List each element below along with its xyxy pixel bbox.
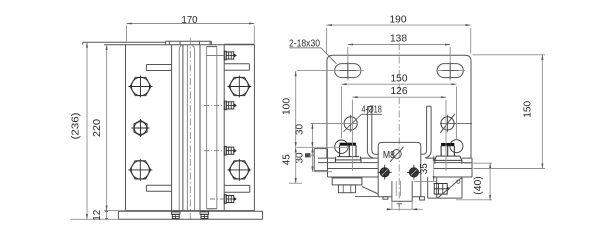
hex bolt B3 (left block bottom) xyxy=(128,159,152,181)
screw left xyxy=(378,165,392,180)
hex bolt B1 (left block top) xyxy=(129,76,153,98)
screw right xyxy=(407,165,421,180)
J hanger bar left xyxy=(367,107,378,159)
nut stud right xyxy=(435,140,463,164)
dim 170 xyxy=(127,15,255,44)
svg-text:100: 100 xyxy=(282,98,293,115)
rib right lower xyxy=(224,185,250,192)
label 4-phi18 xyxy=(344,105,383,132)
slot crosshairs xyxy=(297,47,465,81)
svg-text:170: 170 xyxy=(182,15,198,26)
body bottom edge xyxy=(126,210,255,212)
hex bolt B2 (left block middle, small) xyxy=(132,119,150,137)
M8 centre block xyxy=(378,142,424,201)
dim 126 xyxy=(352,86,446,171)
left clamp end piece xyxy=(305,149,328,177)
rib left upper xyxy=(146,65,171,71)
dim (40) xyxy=(456,163,492,200)
centre line xyxy=(398,43,400,211)
side bolt S4 xyxy=(210,195,237,204)
svg-text:190: 190 xyxy=(390,15,407,26)
top clamp lip xyxy=(166,41,212,45)
dim 220 xyxy=(92,45,107,211)
dim 150 right xyxy=(473,55,546,169)
nut stud left xyxy=(335,140,361,162)
label 2-18x30 xyxy=(289,38,337,64)
hex bolt B5 (right block bottom) xyxy=(227,159,251,181)
J hanger bar right xyxy=(421,106,431,158)
svg-text:(40): (40) xyxy=(473,176,484,195)
hole circle left (phi18) xyxy=(344,115,357,133)
under-plate bolt W1 xyxy=(171,212,180,219)
side bolt S1 xyxy=(206,51,237,60)
svg-text:126: 126 xyxy=(391,86,408,97)
top plate xyxy=(83,42,255,45)
dim 45 xyxy=(281,147,302,183)
M8 label xyxy=(383,147,404,162)
svg-text:30: 30 xyxy=(295,124,306,135)
rib left lower xyxy=(146,185,171,191)
svg-text:45: 45 xyxy=(281,154,292,165)
dim 190 xyxy=(327,15,471,54)
dim 35 xyxy=(414,156,436,182)
svg-text:138: 138 xyxy=(390,34,407,45)
dim 100 xyxy=(282,71,296,147)
dim 138 xyxy=(348,34,450,45)
left clamp block xyxy=(126,45,172,211)
svg-text:4-Ø18: 4-Ø18 xyxy=(361,105,382,116)
centre line xyxy=(189,38,191,222)
bottom extension line xyxy=(71,211,126,220)
dim 30 lower xyxy=(295,147,333,171)
svg-text:150: 150 xyxy=(391,74,408,85)
svg-text:35: 35 xyxy=(419,163,430,174)
mounting plate outline xyxy=(327,55,471,158)
dim 150 top xyxy=(342,74,457,141)
svg-text:(236): (236) xyxy=(71,113,82,140)
svg-text:12: 12 xyxy=(92,209,103,220)
rail bar lines xyxy=(318,158,472,177)
svg-text:150: 150 xyxy=(523,100,534,117)
hole circle right (phi18) xyxy=(440,114,472,133)
rail section lines xyxy=(179,45,217,210)
dim 30 upper xyxy=(295,124,359,148)
slot right 18x30 xyxy=(437,64,463,78)
bottom tongue dim xyxy=(386,201,423,210)
svg-text:220: 220 xyxy=(92,119,103,137)
right clamp block xyxy=(224,44,254,210)
below-bar bracket+nut right xyxy=(428,177,462,198)
slot left 18x30 xyxy=(335,64,361,78)
dim (236) xyxy=(71,42,88,219)
under-plate bolt W2 xyxy=(200,212,209,219)
rib right upper xyxy=(224,64,249,70)
bottom plate xyxy=(118,211,262,219)
dim 12 xyxy=(92,209,108,220)
hex bolt B4 (right block top) xyxy=(227,76,251,98)
side bolt S3 xyxy=(204,146,237,155)
side bolt S2 xyxy=(204,101,237,110)
below-bar washer+nut left xyxy=(332,178,378,197)
